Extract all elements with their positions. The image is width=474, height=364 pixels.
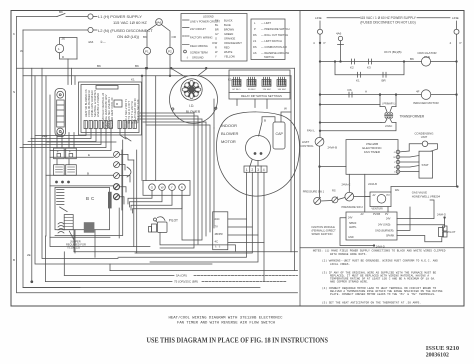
ID blower feet [172,108,174,110]
svg-text:K3: K3 [367,66,371,70]
notes box top edge [300,247,464,249]
svg-text:AS: AS [253,51,257,55]
svg-text:W: W [284,107,287,111]
svg-text:LEGEND: LEGEND [203,15,214,19]
gas valve label [412,190,441,198]
svg-text:L2 (N) (FUSED DISCONNECT: L2 (N) (FUSED DISCONNECT [98,28,153,33]
wire P2 down to bus [169,55,171,76]
svg-text:RS: RS [253,33,257,37]
ladder left rail [319,34,321,137]
svg-text:PRESSURE SW 2: PRESSURE SW 2 [342,205,364,209]
svg-text:BLUE: BLUE [224,23,231,27]
svg-text:UNIT: UNIT [421,135,428,139]
wire bus F [50,156,114,158]
svg-text:115 VAC 1Ø 60 HZ: 115 VAC 1Ø 60 HZ [113,20,147,25]
svg-text:24V (GND): 24V (GND) [378,224,391,227]
wire bus BK horizontal [17,67,295,69]
wire L2 top [23,29,88,31]
wire ID blower leads [171,68,185,77]
junction dots [56,181,58,183]
rung subloop [335,62,404,75]
svg-text:ISSUE 9210: ISSUE 9210 [426,345,459,352]
switch S1 [57,14,65,17]
svg-text:PLATE. CONNECT UNUSED MOTOR LE: PLATE. CONNECT UNUSED MOTOR LEADS TO THE… [330,292,436,296]
svg-text:BLOWER: BLOWER [221,131,238,136]
condensing unit [415,132,434,140]
svg-text:AV: AV [361,213,364,216]
svg-text:24VA-D: 24VA-D [376,245,385,249]
svg-text:FAN: FAN [424,55,430,59]
wire line label dashes [327,17,360,19]
svg-text:115 VAC / 1 Ø 60 HZ POWER SUPP: 115 VAC / 1 Ø 60 HZ POWER SUPPLY [360,16,417,20]
svg-text:2E9: 2E9 [42,134,48,138]
section divider line [299,11,301,307]
svg-text:4A6: 4A6 [88,40,94,44]
ladder right rail [456,34,458,186]
svg-text:TRANSFORMER: TRANSFORMER [400,115,425,119]
wire motor to cap [259,117,275,136]
svg-text:AND COPPER STRAND WIRE.: AND COPPER STRAND WIRE. [330,280,369,283]
pressure switch 1 [314,198,321,205]
venturi box [370,192,391,207]
pilot burner assembly [149,217,168,233]
svg-text:— ROLL OUT SWITCH: — ROLL OUT SWITCH [261,33,288,37]
svg-text:P: P [460,41,462,45]
relay contactor boxes pair 1 [54,148,65,159]
notes block [313,248,446,304]
svg-text:Y: Y [171,186,173,190]
wire limit down [319,146,321,197]
svg-text:P1: P1 [145,50,149,54]
terminal comb lower [57,190,64,205]
connector dark bar [108,192,112,209]
contact K3 [367,59,372,70]
svg-text:24VAC: 24VAC [385,125,392,128]
svg-text:BLOWER: BLOWER [186,110,201,114]
wires pressure row [321,200,332,203]
wires thermostat strip drops [128,191,152,205]
wire bus B [46,174,114,176]
dip switch plug 3 [262,77,272,91]
svg-text:USE THIS DIAGRAM IN PLACE OF F: USE THIS DIAGRAM IN PLACE OF FIG. 18 IN … [147,337,329,345]
svg-text:— PRESSURE SWITCH: — PRESSURE SWITCH [261,27,290,31]
wire top gas valve [391,186,457,188]
rung circulator fan [320,61,421,63]
svg-text:GREEN: GREEN [224,32,233,36]
svg-text:BK: BK [59,10,63,14]
legend box colors [181,14,247,62]
limit control LC [315,137,324,146]
svg-text:( PRIMARY ): ( PRIMARY ) [382,103,395,106]
indoor blower motor label [221,123,238,144]
svg-text:R: R [215,46,217,50]
svg-text:PRESSURE SW 1: PRESSURE SW 1 [303,190,325,194]
switch DS2 [345,192,354,201]
svg-text:24VA-B: 24VA-B [368,182,377,186]
wire bus right drop [294,68,296,270]
svg-text:K: K [13,32,15,36]
svg-text:LINE BK L1 POWER: LINE BK L1 POWER [96,93,100,117]
wire 24VA-A vertical [364,174,366,192]
plug P2 [166,47,173,54]
wire strip downs [118,172,247,257]
svg-text:PV: PV [385,213,389,216]
fan timer board title strip [96,86,118,90]
svg-text:⏚ ⏚: ⏚ ⏚ [215,245,222,249]
wires ignition right [397,200,434,219]
svg-text:BK: BK [410,57,414,61]
relay K1 top terminal [57,91,64,98]
svg-text:BK: BK [143,35,147,39]
ladder terminal left [318,29,323,34]
svg-text:N: N [13,90,15,94]
svg-text:24V: 24V [348,217,353,220]
svg-text:LINE V POWER CIRCUIT: LINE V POWER CIRCUIT [190,20,220,24]
svg-text:BLACK: BLACK [224,19,233,23]
relay K1 bottom terminal [57,128,64,135]
svg-text:ON 5 (BL)(B): ON 5 (BL)(B) [384,50,402,54]
contact K1b [356,72,361,82]
legend box devices [251,19,285,60]
wire left vertical L2 [23,30,260,288]
svg-text:VENTURI: VENTURI [371,207,383,211]
switch RS [332,197,338,203]
svg-text:HT BLO: HT BLO [233,89,241,91]
border frame of diagram [11,11,464,307]
terminal L2 [88,27,93,32]
svg-text:3: 3 [257,168,259,172]
svg-text:IGNITION MODULE: IGNITION MODULE [312,225,336,229]
dip switch settings box [229,70,290,99]
svg-text:AV: AV [373,194,376,197]
svg-text:(5) SET THE HEAT ANTICIPATOR O: (5) SET THE HEAT ANTICIPATOR ON THE THER… [322,300,421,304]
wire transformer bottom [60,53,78,59]
svg-text:BR: BR [215,28,219,32]
caption heat/cool wiring diagram [169,316,284,326]
svg-text:SWITCH: SWITCH [264,55,274,59]
svg-text:WITH ORANGE WIRE NUTS.: WITH ORANGE WIRE NUTS. [330,253,367,256]
fan timer board terminal comb row [84,121,136,129]
svg-text:— LIMIT: — LIMIT [261,21,271,25]
wire bundle mid verticals [140,113,194,248]
svg-text:FACTORY WIRING: FACTORY WIRING [190,36,212,40]
svg-text:W: W [161,186,164,190]
svg-text:LINE: LINE [315,16,322,20]
svg-text:Y: Y [215,55,217,59]
svg-text:GY: GY [215,32,219,36]
ladder terminal right [454,29,459,34]
svg-text:LS: LS [253,39,256,43]
svg-text:24C: 24C [215,217,220,221]
wire left vertical L1 [17,17,298,293]
plug P1 [143,47,150,54]
wire P1 drop to strip [145,68,147,180]
dip switch plug 1 [232,77,241,91]
wire vertical 136.7 [136,150,138,253]
wire pointers 24C box [228,218,247,220]
contact K2 [350,59,355,70]
blower motor M1 [246,136,271,161]
fan timer board vertical labels [84,89,140,128]
transformer T1 circle [55,44,63,52]
wires dip box into blob [254,99,256,108]
svg-text:BROWN: BROWN [224,28,234,32]
wires terminal circles right [120,154,134,160]
svg-text:K1: K1 [131,78,135,82]
svg-text:120 SEC: 120 SEC [263,89,272,91]
svg-text:ORANGE/WHT: ORANGE/WHT [224,41,242,45]
svg-text:(FUSED DISCONNECT ON HOT LEG): (FUSED DISCONNECT ON HOT LEG) [360,21,415,25]
contact K4 [382,72,387,82]
svg-text:DS: DS [253,45,257,49]
svg-text:PV/FB: PV/FB [373,213,381,216]
connector 4A6 circle [156,19,163,26]
issue number [426,345,459,359]
wires lower box drops [74,230,76,253]
dip switch plug 4 [277,77,287,91]
svg-text:7V: 7V [215,225,219,229]
screw terminal strip column [114,151,120,199]
svg-text:PV: PV [387,194,391,197]
svg-text:SPARK IGNITION: SPARK IGNITION [312,232,333,236]
svg-text:P: P [324,41,326,45]
contact DS [348,88,353,97]
svg-text:P: P [254,27,256,31]
ID blower circle [170,75,218,123]
legend symbol lines [183,19,190,21]
svg-text:TIMER ON SEC 120: TIMER ON SEC 120 [136,99,140,123]
motor inducer [421,90,431,100]
svg-text:4A6: 4A6 [156,21,162,25]
svg-text:G: G [394,152,396,154]
wire 4A6 right leg [162,25,171,48]
switch arm lower [60,207,68,212]
label 4A6 plug [88,40,106,44]
svg-text:RED: RED [224,46,230,50]
svg-text:24V: 24V [386,218,391,221]
svg-text:INDUCER MOTOR: INDUCER MOTOR [413,101,439,105]
svg-text:S8600: S8600 [349,222,357,225]
wire arc crossing [127,167,131,177]
svg-text:B: B [13,258,15,262]
enclosure right edge [55,140,123,236]
transformer T2 [379,94,397,123]
svg-text:GND (BURNER): GND (BURNER) [375,229,394,232]
wire vertical 50 [50,95,150,247]
wire vertical 121.9 [121,150,123,210]
svg-text:HEAT/COOL WIRING DIAGRAM WITH: HEAT/COOL WIRING DIAGRAM WITH 37E120B EL… [169,316,284,321]
ignition module box [346,212,397,240]
wire mesh left assembly [20,68,150,287]
ID blower spokes [182,80,201,99]
hatched box lower [64,215,73,230]
wire board to relay verticals [67,59,69,85]
wires plus boxes up [56,133,58,149]
svg-text:LINE: LINE [452,16,459,20]
svg-text:L1 (H) POWER SUPPLY: L1 (H) POWER SUPPLY [98,14,142,19]
capacitor CAP [273,122,285,149]
svg-text:RELAY DIP SWITCH SETTINGS: RELAY DIP SWITCH SETTINGS [241,94,282,98]
svg-text:FAN TIMER: FAN TIMER [364,150,381,154]
svg-text:NOTES: (1) MAKE FIELD POWER SU: NOTES: (1) MAKE FIELD POWER SUPPLY CONNE… [313,248,446,252]
ladder power supply label [315,16,459,20]
wire vertical 119.2 [118,208,120,238]
svg-text:24VA-B: 24VA-B [328,146,338,150]
label box 24C [213,212,228,250]
label L1 power supply [98,14,153,39]
svg-text:WH: WH [395,188,399,192]
stat box [419,151,433,178]
svg-text:E: E [88,153,90,157]
wire bus G [50,185,114,187]
svg-text:24VA-D: 24VA-D [437,213,446,217]
svg-text:24V CIRCUIT: 24V CIRCUIT [190,27,206,31]
wire transformer top [60,38,78,60]
svg-text:SCREW TERM: SCREW TERM [190,51,208,55]
svg-text:— COMBUSTION AIR: — COMBUSTION AIR [261,45,287,49]
svg-text:160 SEC: 160 SEC [278,89,287,91]
svg-text:BL: BL [215,23,219,27]
svg-text:B: B [264,119,266,123]
svg-text:5A (OR): 5A (OR) [176,274,187,278]
svg-text:B: B [87,171,89,175]
svg-text:O: O [215,37,217,41]
svg-text:— LIMIT SWITCH: — LIMIT SWITCH [261,39,282,43]
wire 4A6 left leg [147,25,157,48]
svg-text:20036102: 20036102 [426,353,449,359]
indoor blower blob outline [217,112,300,196]
wire bus E [46,141,116,143]
thermostat terminal strip box [143,181,190,196]
svg-text:GND: GND [348,236,354,239]
lower control box [55,187,110,229]
svg-text:BK: BK [97,64,101,68]
svg-text:2: 2 [251,168,253,172]
terminal L1 [88,14,93,19]
svg-text:4: 4 [263,168,265,172]
svg-text:K2: K2 [350,66,354,70]
dip switch plug 2 [247,77,256,91]
svg-text:K1: K1 [356,79,360,83]
ID blower label [186,104,201,114]
svg-text:PILOT: PILOT [169,219,178,223]
svg-text:FAN L: FAN L [307,129,315,133]
svg-text:ON 4Ø (L6)): ON 4Ø (L6)) [117,34,140,39]
svg-text:(FENWALL) DIRECT: (FENWALL) DIRECT [312,229,337,233]
svg-text:SPARK: SPARK [386,234,395,237]
jumper note [66,240,86,250]
svg-text:BK: BK [135,64,139,68]
wire CAP elbow to bus drop [281,112,291,122]
wire bottom horizontals [110,270,298,272]
svg-text:1: 1 [246,168,248,172]
svg-text:4B/PR: 4B/PR [215,232,223,236]
svg-text:CONTROL: CONTROL [300,144,314,148]
svg-text:GROUND: GROUND [192,56,204,60]
wire motor to strip [250,160,252,166]
wire vertical 46 [45,76,47,236]
svg-text:INDOOR: INDOOR [221,123,237,128]
motor circulator fan [421,57,430,66]
svg-text:FAN TIMER AND WITH REVERSE AIR: FAN TIMER AND WITH REVERSE AIR FLOW SWIT… [177,322,276,326]
svg-text:75 (OR)/25C (BR): 75 (OR)/25C (BR) [174,280,198,284]
wire pilot loop [160,233,235,252]
svg-text:AM/PL: AM/PL [349,226,357,229]
wires board fanout left [35,129,86,136]
svg-text:MOTOR: MOTOR [221,139,236,144]
svg-text:4A6: 4A6 [336,32,342,36]
svg-text:DS: DS [348,88,352,92]
wire vertical 42 [42,68,118,258]
wire vertical 133.8 [133,160,135,247]
svg-text:2E: 2E [62,37,66,41]
svg-text:STAT: STAT [422,163,429,167]
svg-text:K1: K1 [228,78,232,82]
wire P1 down to bus [146,55,148,69]
svg-text:WHITE: WHITE [224,50,233,54]
svg-text:ORANGE: ORANGE [224,37,236,41]
pilot right assembly [439,225,448,237]
svg-text:A: A [365,90,367,94]
fan timer board relay box [114,100,122,107]
relay K1 core [57,100,64,127]
xfmr glyph box [84,222,95,233]
svg-text:W: W [20,49,23,53]
wire ignition left [340,218,374,246]
svg-text:90 SEC: 90 SEC [248,89,256,91]
svg-text:4F: 4F [416,90,420,94]
ignition module label [312,225,337,236]
coil symbol [58,223,64,234]
svg-text:LOCAL CODES.: LOCAL CODES. [330,263,350,266]
svg-text:BC: BC [86,196,96,201]
relay K1 assembly rounded body [55,89,66,137]
wire transformer secondary [320,122,381,124]
svg-text:4C: 4C [215,240,219,244]
svg-text:— REVERSE AIRFLOW: — REVERSE AIRFLOW [261,51,290,55]
svg-text:RS: RS [332,189,336,193]
svg-text:①—: ①— [100,40,106,44]
svg-text:O/W: O/W [212,41,218,45]
rung inducer [320,94,421,96]
svg-text:CAP: CAP [276,132,284,136]
svg-text:2E: 2E [27,253,31,257]
svg-text:P2: P2 [168,50,172,54]
motor terminal strip 1234 [244,166,267,172]
svg-text:YELLOW: YELLOW [224,55,235,59]
svg-text:I.D.: I.D. [189,104,194,108]
svg-text:FIELD WIRING: FIELD WIRING [190,44,208,48]
relay contactor boxes pair 2 [54,165,65,176]
fan timer 2 box [346,140,398,175]
fan timer board U1 outline [79,82,142,135]
wires fan timer to stat [400,150,409,153]
wire L1 top [17,16,58,18]
svg-text:⏚: ⏚ [186,56,189,60]
fan timer 2 terminals [393,152,396,174]
wire bus K1 horizontal [23,75,291,77]
svg-text:PILOT: PILOT [447,230,455,234]
svg-text:HONEYWELL VR8204: HONEYWELL VR8204 [412,194,441,198]
